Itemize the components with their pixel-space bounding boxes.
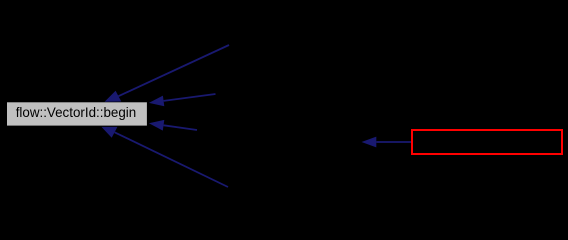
arrowhead of edge 4 from bottom hidden caller node [102,127,118,138]
arrowhead of edge 5 from red node to hidden node [362,137,377,148]
node: flow::VectorId::begin (grey filled box with label) [7,102,148,126]
node: truncated caller (red outlined box, empty) [412,130,562,154]
arrowhead of edge 3 from lower-right hidden caller node [149,120,164,131]
wire: edge 5 from red node to hidden node (shaft) [376,141,411,143]
svg-text:flow::VectorId::begin: flow::VectorId::begin [16,104,137,120]
wire: edge 2 from upper-right hidden caller node (shaft) [164,94,216,101]
wire: edge 1 from top hidden caller node (shaft) [118,45,229,96]
wire: edge 3 from lower-right hidden caller node (shaft) [164,125,197,130]
arrowhead of edge 2 from upper-right hidden caller node [149,96,164,107]
arrowhead of edge 1 from top hidden caller node [105,91,122,102]
wire: edge 4 from bottom hidden caller node (shaft) [115,132,228,187]
